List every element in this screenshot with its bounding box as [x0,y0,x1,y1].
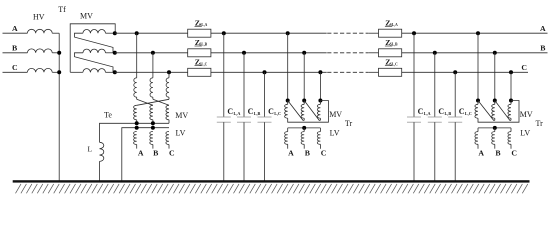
ground bus bar [13,180,530,182]
svg-text:MV: MV [175,111,188,120]
inductor Te LV winding A [134,132,137,145]
ground hatching [16,184,528,193]
wire Tf MV coil C right end to output node [106,71,115,73]
wire capacitor C_L,A to ground [223,122,225,181]
svg-text:MV: MV [520,110,533,119]
wire bus A from Zs box to line-break [211,32,327,34]
wire Tr phase A drop [287,33,289,100]
wire bus C from Zs box to line-break [211,71,327,73]
inductor Tf HV winding phase C [27,68,52,72]
resistor Z_SL,C box [188,68,211,76]
wire bus C from second Z box to right end [402,71,528,73]
wire Tr phase B drop [494,53,496,101]
resistor Z_SL,A box [188,29,211,37]
inductor Te zigzag lower winding b [150,105,153,119]
resistor Z_SL,A box [379,29,402,37]
junction bus C tap for shunt capacitor [453,70,457,74]
wire Tr delta diagonal node B to winding C bottom [495,101,511,121]
wire Te upper winding C stub [168,97,170,99]
inductor Te LV winding B [150,132,153,145]
svg-text:C: C [459,107,465,116]
wire Tr delta closing link node C to winding A bottom [478,101,519,123]
junction bus B tap for shunt capacitor [433,51,437,55]
junction Tr LV bus centre [493,126,497,130]
inductor Te zigzag upper winding C [166,78,169,97]
wire Te phase B drop [152,53,154,78]
wire bus B from Tf to Zs box [115,52,188,54]
wire Tf MV winding CA left end to left edge [70,71,83,73]
wire Tr delta diagonal node A to winding B bottom [288,101,305,121]
inductor Tf HV winding phase A [27,29,52,33]
junction bus A tap for shunt capacitor [222,31,226,35]
wire capacitor C_L,A top lead [223,33,225,117]
wire bus B into second Z box [368,52,378,54]
wire Tr LV common bus [288,127,321,129]
wire HV phase C input [3,71,28,73]
junction bus B tap for Tr [493,51,497,55]
wire HV phase B input [3,52,28,54]
junction bus C tap for Tr [509,70,513,74]
wire Te phase A drop [136,33,138,78]
junction HV star phase B [57,51,61,55]
junction bus C tap for shunt capacitor [263,70,267,74]
inductor Te LV winding C [166,132,169,145]
capacitor C_L,B plates [428,116,442,118]
junction Te neutral phase a [135,121,139,125]
svg-text:C: C [438,107,444,116]
wire Tf MV winding AB left end diagonal to next node [75,33,114,53]
junction bus B tap for Te [151,51,155,55]
svg-text:A: A [540,24,546,33]
wire bus B from Zs box to line-break [211,52,327,54]
junction bus B tap for Tr [302,51,306,55]
capacitor C_L,B plates [237,116,251,118]
wire capacitor C_L,B to ground [434,122,436,181]
resistor Z_SL,B box [379,49,402,57]
svg-text:C: C [248,107,254,116]
resistor Z_SL,B box [188,49,211,57]
wire bus C from Tf to Zs box [115,71,188,73]
wire capacitor C_L,B to ground [243,122,245,181]
wire bus A from second Z box to right end [402,32,548,34]
wire capacitor C_L,B top lead [243,53,245,117]
capacitor C_L,A plates [217,116,231,118]
capacitor C_L,A plates [407,116,421,118]
wire Tr LV winding B terminal stub [303,144,305,148]
svg-text:MV: MV [80,11,93,20]
junction Tr MV delta node B [493,99,497,103]
wire capacitor C_L,A to ground [413,122,415,181]
inductor Tf MV winding AB [83,30,106,34]
svg-text:A: A [288,149,294,158]
junction Tr MV delta node A [286,99,290,103]
wire Tr phase B drop [303,53,305,101]
svg-text:C: C [321,149,327,158]
svg-text:A: A [138,149,144,158]
wire Tr delta closing link node C to winding A bottom [288,101,329,123]
wire Tr LV winding A terminal stub [477,144,479,148]
wire L to ground [99,161,101,181]
wire HV phase A to star point [52,32,59,34]
inductor Tr LV winding B [301,132,304,145]
wire Tr phase A drop [477,33,479,100]
junction bus B tap for shunt capacitor [242,51,246,55]
wire Te LV neutral bus to ground [122,128,169,181]
inductor Te zigzag upper winding A [134,78,137,97]
wire HV phase C to star point [52,71,59,73]
svg-text:B: B [305,149,310,158]
svg-text:LV: LV [176,129,186,138]
junction Tr LV bus centre [302,126,306,130]
wire capacitor C_L,C to ground [264,122,266,181]
junction Te LV neutral phase b [151,126,155,130]
inductor Te zigzag lower winding c [166,105,169,119]
inductor Tf MV winding CA [83,69,106,73]
inductor Tr MV winding A [285,104,288,118]
wire Te neutral bus to inductor L [100,123,170,142]
svg-text:L,B: L,B [445,111,452,116]
junction Tr MV delta node B [302,99,306,103]
junction Tf MV output node A [113,31,117,35]
svg-text:HV: HV [33,12,45,21]
wire Te lower winding c to neutral [168,120,170,124]
svg-text:Tr: Tr [536,119,544,128]
svg-text:A: A [478,149,484,158]
wire Te LV winding C terminal stub [168,145,170,149]
junction Te LV neutral phase a [135,126,139,130]
svg-text:C: C [511,149,517,158]
junction bus A tap for Tr [286,31,290,35]
junction bus C tap for Tr [318,70,322,74]
wire bus B from second Z box to right end [402,52,548,54]
wire bus C dashed continuation (omitted line section) [327,71,368,73]
svg-text:Tf: Tf [58,5,66,14]
junction HV star phase C [57,70,61,74]
wire Te LV winding B terminal stub [152,145,154,149]
junction Tr MV delta node A [476,99,480,103]
svg-text:B: B [153,149,158,158]
wire Te LV winding A terminal stub [136,145,138,149]
junction bus A tap for Tr [476,31,480,35]
wire Tr phase C drop [319,72,321,100]
svg-text:Tr: Tr [345,119,353,128]
svg-text:A: A [12,24,18,33]
inductor Tr LV winding C [508,132,511,145]
wire Te zigzag cross-connection C-a (long diagonal) [137,99,169,105]
svg-text:L,C: L,C [465,111,472,116]
wire Tf MV coil A right end to output node [106,32,115,34]
junction bus A tap for shunt capacitor [412,31,416,35]
svg-text:L,C: L,C [274,111,281,116]
inductor L (neutral earthing reactor) [100,142,104,161]
inductor Tr MV winding B [492,104,495,118]
inductor Tr LV winding C [317,132,320,145]
wire Te zigzag cross-connection A-b [137,99,153,105]
junction Te neutral phase b [151,121,155,125]
wire Tf MV delta left edge + top edge [70,24,115,73]
junction bus C tap for Te [167,70,171,74]
junction Tf MV output node B [113,51,117,55]
inductor Tr MV winding B [301,104,304,118]
capacitor C_L,C plates [448,116,462,118]
wire Tr delta diagonal node A to winding B bottom [478,101,495,121]
svg-text:C: C [418,107,424,116]
inductor Tr LV winding A [475,132,478,145]
wire Tr phase C drop [510,72,512,100]
wire Tr LV winding C terminal stub [510,144,512,148]
wire bus B dashed continuation (omitted line section) [327,52,368,54]
svg-text:Te: Te [104,110,112,119]
wire Tr LV winding A terminal stub [287,144,289,148]
svg-text:MV: MV [329,110,342,119]
svg-text:L,B: L,B [254,111,261,116]
wire Te zigzag cross-connection B-c [153,99,169,105]
junction Tr MV delta node C [318,99,322,103]
junction bus A tap for Te [135,31,139,35]
wire Tr LV common bus [478,127,511,129]
wire bus C into second Z box [368,71,378,73]
wire Te lower winding a to neutral [136,120,138,124]
inductor Tf MV winding BC [83,49,106,53]
wire Tr delta diagonal node B to winding C bottom [304,101,320,121]
svg-text:C: C [521,63,527,72]
wire capacitor C_L,A top lead [413,33,415,117]
wire Tf HV star point to ground [58,33,60,181]
inductor Tr MV winding C [317,104,320,118]
wire Tf MV winding BC left end diagonal to next node [75,53,114,73]
svg-text:L: L [88,145,93,154]
inductor Tr MV winding A [475,104,478,118]
svg-text:L,A: L,A [424,111,431,116]
wire Te phase C drop [168,72,170,78]
inductor Tr LV winding A [285,132,288,145]
wire Te upper winding B stub [152,97,154,99]
svg-text:C: C [268,107,274,116]
capacitor C_L,C plates [258,116,272,118]
wire HV phase A input [3,32,28,34]
wire bus A from Tf to Zs box [115,32,188,34]
svg-text:B: B [12,43,17,52]
wire bus A dashed continuation (omitted line section) [327,32,368,34]
wire Tr LV winding B terminal stub [494,144,496,148]
svg-text:L,A: L,A [234,111,241,116]
wire capacitor C_L,C to ground [454,122,456,181]
inductor Tr LV winding B [492,132,495,145]
svg-text:C: C [169,149,175,158]
wire Te lower winding b to neutral [152,120,154,124]
junction Tf MV output node C [113,70,117,74]
wire HV phase B to star point [52,52,59,54]
inductor Tr MV winding C [508,104,511,118]
wire capacitor C_L,C top lead [454,72,456,117]
wire Te upper winding A stub [136,97,138,99]
inductor Te zigzag upper winding B [150,78,153,97]
svg-text:B: B [540,44,545,53]
svg-text:C: C [227,107,233,116]
svg-text:LV: LV [520,129,530,138]
junction Tr MV delta node C [509,99,513,103]
svg-text:C: C [12,63,18,72]
wire Tf MV coil B right end to output node [106,52,115,54]
wire capacitor C_L,B top lead [434,53,436,117]
resistor Z_SL,C box [379,68,402,76]
svg-text:LV: LV [330,129,340,138]
svg-text:B: B [495,149,500,158]
inductor Tf HV winding phase B [27,49,52,53]
wire Tr LV winding C terminal stub [319,144,321,148]
wire capacitor C_L,C top lead [264,72,266,117]
inductor Te zigzag lower winding a [134,105,137,119]
wire bus A into second Z box [368,32,378,34]
